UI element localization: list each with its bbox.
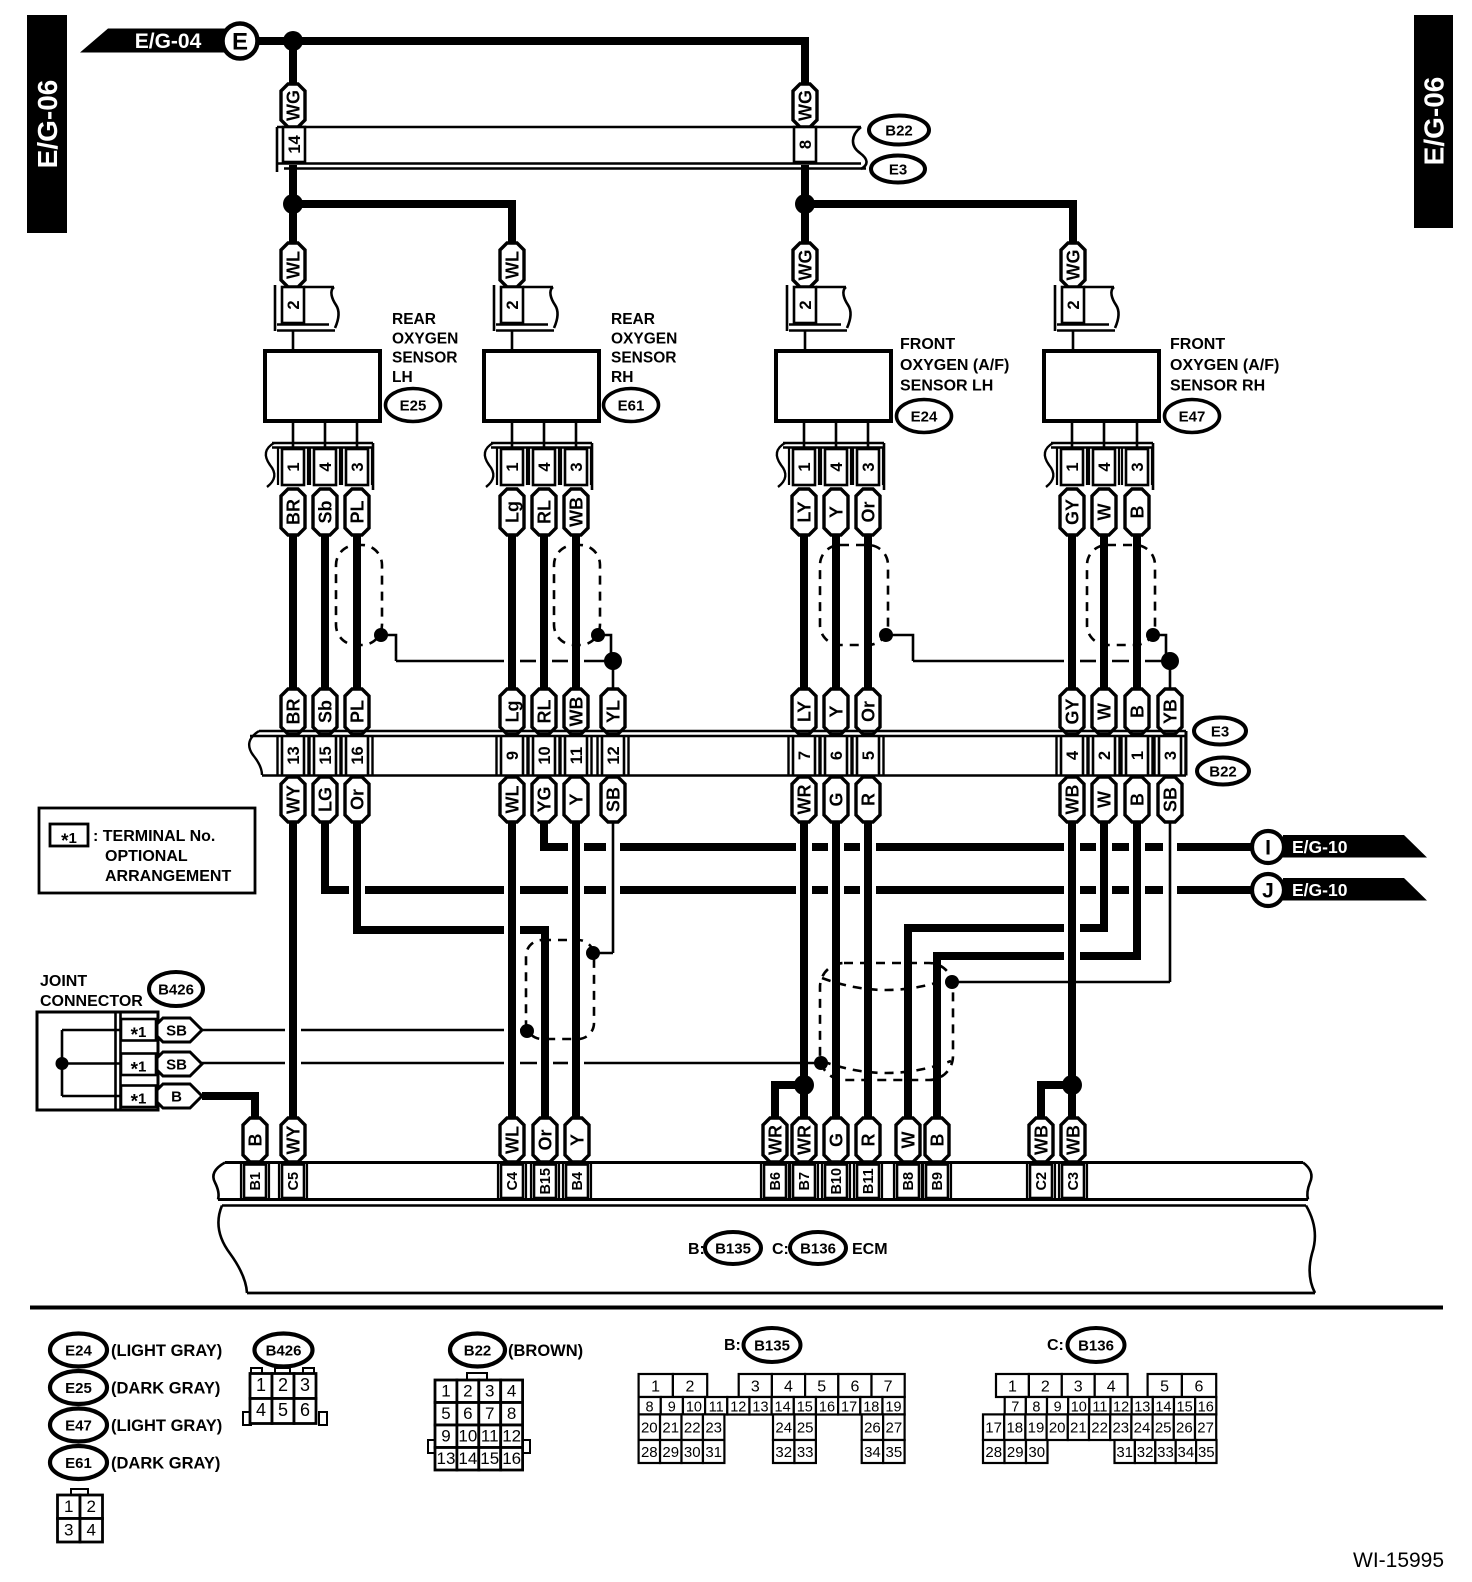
svg-text:16: 16: [819, 1400, 835, 1416]
svg-text:G: G: [826, 1133, 846, 1147]
svg-text:WI-15995: WI-15995: [1353, 1549, 1444, 1572]
svg-text:E/G-04: E/G-04: [135, 30, 202, 53]
svg-text:13: 13: [752, 1400, 768, 1416]
svg-text:2: 2: [285, 300, 303, 309]
svg-text:26: 26: [1176, 1420, 1193, 1437]
svg-text:B1: B1: [248, 1172, 264, 1191]
svg-text:WB: WB: [1062, 785, 1082, 815]
svg-text:1: 1: [64, 1497, 73, 1516]
svg-text:B15: B15: [538, 1168, 554, 1195]
svg-text:9: 9: [504, 751, 522, 760]
svg-text:LY: LY: [794, 501, 814, 522]
svg-text:10: 10: [1071, 1400, 1087, 1416]
svg-text:4: 4: [828, 462, 846, 472]
svg-text:4: 4: [1107, 1379, 1116, 1396]
svg-text:WL: WL: [502, 1126, 522, 1154]
svg-text:YG: YG: [534, 786, 554, 812]
svg-text:WB: WB: [566, 497, 586, 527]
svg-text:12: 12: [730, 1400, 746, 1416]
svg-text:6: 6: [850, 1379, 859, 1396]
svg-text:B9: B9: [930, 1172, 946, 1191]
svg-text:10: 10: [536, 746, 554, 764]
svg-text:19: 19: [885, 1400, 901, 1416]
svg-text:1: 1: [796, 462, 814, 471]
svg-text:15: 15: [317, 746, 335, 764]
svg-text:4: 4: [87, 1520, 96, 1539]
svg-text:B6: B6: [768, 1172, 784, 1191]
svg-text:OXYGEN (A/F): OXYGEN (A/F): [900, 357, 1009, 374]
svg-text:1: 1: [504, 462, 522, 471]
svg-text:30: 30: [1028, 1444, 1045, 1461]
svg-text:5: 5: [1160, 1379, 1169, 1396]
svg-text:W: W: [1094, 791, 1114, 808]
svg-text:YL: YL: [603, 700, 623, 723]
svg-text:31: 31: [1116, 1444, 1133, 1461]
svg-text:G: G: [826, 792, 846, 806]
svg-text:FRONT: FRONT: [1170, 336, 1225, 353]
svg-text:27: 27: [886, 1420, 903, 1437]
svg-text:B:: B:: [688, 1241, 705, 1258]
svg-text:3: 3: [860, 462, 878, 471]
svg-text:WL: WL: [502, 251, 522, 279]
svg-text:9: 9: [1054, 1400, 1062, 1416]
svg-text:B: B: [927, 1134, 947, 1147]
svg-text:: TERMINAL No.: : TERMINAL No.: [93, 828, 215, 845]
svg-text:32: 32: [775, 1444, 792, 1461]
svg-text:E47: E47: [1179, 409, 1206, 426]
svg-text:B135: B135: [754, 1338, 790, 1355]
svg-text:1: 1: [441, 1381, 450, 1400]
svg-text:14: 14: [775, 1400, 791, 1416]
svg-text:REAR: REAR: [611, 311, 655, 328]
svg-text:SB: SB: [166, 1023, 187, 1040]
svg-text:4: 4: [1096, 462, 1114, 472]
svg-text:23: 23: [705, 1420, 722, 1437]
svg-text:BR: BR: [283, 699, 303, 725]
svg-text:C:: C:: [1047, 1337, 1064, 1354]
svg-text:WL: WL: [502, 786, 522, 814]
svg-text:WG: WG: [795, 250, 815, 281]
svg-text:3: 3: [568, 462, 586, 471]
svg-text:E24: E24: [911, 409, 938, 426]
svg-text:E3: E3: [889, 162, 907, 179]
svg-text:27: 27: [1197, 1420, 1214, 1437]
svg-text:15: 15: [1177, 1400, 1193, 1416]
svg-text:10: 10: [458, 1426, 477, 1445]
svg-text:2: 2: [797, 300, 815, 309]
svg-text:B136: B136: [800, 1241, 836, 1258]
svg-text:WY: WY: [283, 1126, 303, 1155]
svg-text:W: W: [898, 1132, 918, 1149]
svg-text:GY: GY: [1062, 698, 1082, 724]
svg-text:B135: B135: [715, 1241, 751, 1258]
svg-text:3: 3: [1074, 1379, 1083, 1396]
svg-text:25: 25: [1155, 1420, 1172, 1437]
svg-text:SENSOR LH: SENSOR LH: [900, 378, 993, 395]
svg-text:8: 8: [507, 1404, 516, 1423]
svg-text:35: 35: [886, 1444, 903, 1461]
svg-text:E24: E24: [65, 1343, 92, 1360]
svg-text:E25: E25: [400, 398, 427, 415]
svg-text:1: 1: [1064, 462, 1082, 471]
svg-text:5: 5: [441, 1404, 450, 1423]
svg-text:31: 31: [705, 1444, 722, 1461]
svg-text:4: 4: [784, 1379, 793, 1396]
svg-text:SB: SB: [603, 787, 623, 812]
svg-text:WL: WL: [283, 251, 303, 279]
svg-text:3: 3: [64, 1520, 73, 1539]
svg-text:3: 3: [485, 1381, 494, 1400]
svg-text:2: 2: [504, 300, 522, 309]
svg-text:Y: Y: [826, 705, 846, 717]
svg-text:8: 8: [1032, 1400, 1040, 1416]
svg-text:FRONT: FRONT: [900, 336, 955, 353]
svg-text:E/G-10: E/G-10: [1292, 880, 1348, 900]
svg-text:REAR: REAR: [392, 311, 436, 328]
svg-text:C:: C:: [772, 1241, 789, 1258]
svg-text:4: 4: [317, 462, 335, 472]
svg-text:B4: B4: [570, 1172, 586, 1191]
svg-text:B: B: [1127, 705, 1147, 718]
svg-text:8: 8: [646, 1400, 654, 1416]
svg-text:B: B: [171, 1089, 182, 1106]
svg-text:6: 6: [828, 751, 846, 760]
svg-text:E3: E3: [1211, 724, 1229, 741]
svg-text:7: 7: [1011, 1400, 1019, 1416]
svg-text:LY: LY: [794, 701, 814, 722]
svg-text:18: 18: [1006, 1420, 1023, 1437]
svg-text:28: 28: [985, 1444, 1002, 1461]
svg-text:B: B: [245, 1134, 265, 1147]
svg-text:2: 2: [463, 1381, 472, 1400]
svg-text:35: 35: [1198, 1444, 1215, 1461]
svg-text:2: 2: [1041, 1379, 1050, 1396]
svg-text:B22: B22: [464, 1343, 492, 1360]
svg-text:OPTIONAL: OPTIONAL: [105, 848, 188, 865]
svg-text:(LIGHT GRAY): (LIGHT GRAY): [111, 1417, 222, 1435]
svg-text:JOINT: JOINT: [40, 973, 87, 990]
svg-text:E47: E47: [65, 1418, 92, 1435]
svg-text:13: 13: [436, 1449, 455, 1468]
svg-text:3: 3: [349, 462, 367, 471]
svg-text:14: 14: [286, 135, 304, 154]
svg-text:C4: C4: [505, 1172, 521, 1191]
svg-text:7: 7: [485, 1404, 494, 1423]
svg-text:Or: Or: [858, 701, 878, 722]
svg-text:R: R: [858, 793, 878, 806]
svg-text:SENSOR RH: SENSOR RH: [1170, 378, 1265, 395]
svg-text:2: 2: [1065, 300, 1083, 309]
svg-text:32: 32: [1137, 1444, 1154, 1461]
svg-text:12: 12: [502, 1426, 521, 1445]
svg-text:WG: WG: [283, 90, 303, 121]
svg-text:RL: RL: [534, 700, 554, 724]
svg-text:B11: B11: [861, 1168, 877, 1194]
svg-text:2: 2: [1096, 751, 1114, 760]
svg-text:2: 2: [278, 1375, 288, 1395]
svg-text:WR: WR: [794, 1125, 814, 1155]
svg-text:C3: C3: [1066, 1172, 1082, 1191]
svg-text:Sb: Sb: [315, 500, 335, 523]
svg-text:20: 20: [1049, 1420, 1066, 1437]
svg-text:1: 1: [651, 1379, 660, 1396]
svg-text:11: 11: [481, 1426, 499, 1445]
svg-text:15: 15: [480, 1449, 499, 1468]
svg-text:17: 17: [985, 1420, 1002, 1437]
svg-text:E25: E25: [65, 1380, 92, 1397]
svg-text:9: 9: [668, 1400, 676, 1416]
svg-text:E: E: [232, 29, 248, 56]
svg-text:30: 30: [684, 1444, 701, 1461]
svg-text:LG: LG: [315, 787, 335, 812]
svg-text:Or: Or: [535, 1129, 555, 1150]
svg-text:3: 3: [1162, 751, 1180, 760]
svg-text:B22: B22: [1209, 764, 1237, 781]
svg-text:4: 4: [507, 1381, 516, 1400]
svg-text:E/G-06: E/G-06: [32, 80, 63, 169]
svg-text:Or: Or: [347, 789, 367, 810]
svg-text:16: 16: [349, 746, 367, 764]
svg-text:OXYGEN (A/F): OXYGEN (A/F): [1170, 357, 1279, 374]
svg-text:LH: LH: [392, 369, 413, 386]
svg-text:Sb: Sb: [315, 700, 335, 723]
svg-text:CONNECTOR: CONNECTOR: [40, 993, 143, 1010]
svg-text:33: 33: [1157, 1444, 1174, 1461]
svg-text:Lg: Lg: [502, 501, 522, 523]
svg-text:B136: B136: [1078, 1338, 1114, 1355]
svg-text:(DARK GRAY): (DARK GRAY): [111, 1455, 220, 1473]
svg-text:11: 11: [1092, 1400, 1107, 1416]
svg-text:3: 3: [300, 1375, 310, 1395]
svg-text:23: 23: [1112, 1420, 1129, 1437]
svg-text:Y: Y: [567, 1134, 587, 1146]
svg-text:7: 7: [796, 751, 814, 760]
svg-text:Y: Y: [826, 506, 846, 518]
svg-text:B:: B:: [724, 1337, 741, 1354]
svg-text:29: 29: [662, 1444, 679, 1461]
svg-text:6: 6: [300, 1400, 310, 1420]
svg-text:OXYGEN: OXYGEN: [392, 330, 458, 347]
svg-text:WB: WB: [566, 697, 586, 727]
svg-text:4: 4: [1064, 750, 1082, 760]
svg-text:J: J: [1262, 880, 1274, 903]
svg-text:14: 14: [1155, 1400, 1171, 1416]
svg-text:WR: WR: [765, 1125, 785, 1155]
svg-text:12: 12: [605, 746, 623, 764]
svg-text:B10: B10: [829, 1168, 845, 1195]
svg-text:Y: Y: [566, 793, 586, 805]
svg-text:SENSOR: SENSOR: [611, 350, 676, 367]
svg-text:29: 29: [1007, 1444, 1024, 1461]
svg-text:WG: WG: [1063, 250, 1083, 281]
svg-text:BR: BR: [283, 499, 303, 525]
svg-text:9: 9: [441, 1426, 450, 1445]
svg-text:21: 21: [662, 1420, 679, 1437]
svg-text:GY: GY: [1062, 499, 1082, 525]
svg-text:5: 5: [860, 751, 878, 760]
svg-text:6: 6: [463, 1404, 472, 1423]
svg-text:16: 16: [1198, 1400, 1214, 1416]
svg-text:1: 1: [285, 462, 303, 471]
svg-text:Lg: Lg: [502, 701, 522, 723]
svg-text:3: 3: [1129, 462, 1147, 471]
svg-text:33: 33: [797, 1444, 814, 1461]
svg-text:C2: C2: [1034, 1172, 1050, 1191]
svg-text:B426: B426: [158, 982, 194, 999]
svg-text:Or: Or: [858, 501, 878, 522]
svg-text:22: 22: [684, 1420, 701, 1437]
svg-text:WY: WY: [283, 785, 303, 814]
svg-text:(DARK GRAY): (DARK GRAY): [111, 1380, 220, 1398]
svg-text:13: 13: [1134, 1400, 1150, 1416]
svg-text:R: R: [858, 1134, 878, 1147]
svg-text:PL: PL: [347, 700, 367, 723]
svg-text:5: 5: [817, 1379, 826, 1396]
svg-text:SB: SB: [1160, 787, 1180, 812]
svg-text:WR: WR: [794, 785, 814, 815]
svg-text:4: 4: [536, 462, 554, 472]
svg-text:19: 19: [1028, 1420, 1045, 1437]
svg-text:7: 7: [884, 1379, 893, 1396]
svg-text:1: 1: [1008, 1379, 1017, 1396]
svg-text:11: 11: [709, 1400, 724, 1416]
svg-text:RL: RL: [534, 500, 554, 524]
svg-text:10: 10: [686, 1400, 702, 1416]
svg-text:26: 26: [864, 1420, 881, 1437]
svg-text:B8: B8: [901, 1172, 917, 1191]
svg-text:YB: YB: [1160, 699, 1180, 724]
svg-text:5: 5: [278, 1400, 288, 1420]
svg-text:WB: WB: [1063, 1125, 1083, 1155]
svg-text:28: 28: [641, 1444, 658, 1461]
svg-text:2: 2: [87, 1497, 96, 1516]
svg-text:SENSOR: SENSOR: [392, 350, 457, 367]
svg-text:E61: E61: [618, 398, 645, 415]
svg-text:22: 22: [1091, 1420, 1108, 1437]
svg-text:PL: PL: [347, 500, 367, 523]
svg-text:B7: B7: [797, 1172, 813, 1191]
svg-text:25: 25: [797, 1420, 814, 1437]
svg-text:15: 15: [797, 1400, 813, 1416]
svg-text:E61: E61: [65, 1455, 92, 1472]
svg-text:(LIGHT GRAY): (LIGHT GRAY): [111, 1342, 222, 1360]
svg-text:W: W: [1094, 703, 1114, 720]
svg-text:C5: C5: [286, 1172, 302, 1191]
svg-text:I: I: [1265, 837, 1271, 860]
svg-text:21: 21: [1070, 1420, 1087, 1437]
svg-text:17: 17: [841, 1400, 857, 1416]
svg-text:13: 13: [285, 746, 303, 764]
svg-text:WB: WB: [1031, 1125, 1051, 1155]
svg-text:14: 14: [458, 1449, 477, 1468]
svg-text:E/G-10: E/G-10: [1292, 837, 1348, 857]
svg-text:ECM: ECM: [852, 1241, 888, 1258]
svg-text:B426: B426: [266, 1343, 302, 1360]
svg-text:(BROWN): (BROWN): [508, 1342, 583, 1360]
svg-text:24: 24: [775, 1420, 792, 1437]
svg-text:24: 24: [1134, 1420, 1151, 1437]
svg-text:8: 8: [797, 140, 815, 149]
svg-text:11: 11: [568, 747, 586, 764]
svg-text:16: 16: [502, 1449, 521, 1468]
svg-text:4: 4: [256, 1400, 266, 1420]
svg-text:12: 12: [1113, 1400, 1129, 1416]
svg-text:W: W: [1094, 504, 1114, 521]
svg-text:1: 1: [256, 1375, 266, 1395]
svg-text:34: 34: [864, 1444, 881, 1461]
svg-text:ARRANGEMENT: ARRANGEMENT: [105, 868, 231, 885]
svg-text:2: 2: [685, 1379, 694, 1396]
svg-text:6: 6: [1194, 1379, 1203, 1396]
svg-text:34: 34: [1178, 1444, 1195, 1461]
svg-text:SB: SB: [166, 1057, 187, 1074]
svg-text:WG: WG: [795, 90, 815, 121]
svg-text:OXYGEN: OXYGEN: [611, 330, 677, 347]
svg-text:3: 3: [751, 1379, 760, 1396]
svg-text:B: B: [1127, 506, 1147, 519]
svg-text:B: B: [1127, 793, 1147, 806]
svg-text:RH: RH: [611, 369, 633, 386]
svg-text:1: 1: [1129, 751, 1147, 760]
svg-text:18: 18: [863, 1400, 879, 1416]
svg-text:20: 20: [641, 1420, 658, 1437]
svg-text:B22: B22: [885, 123, 913, 140]
svg-text:E/G-06: E/G-06: [1419, 77, 1450, 166]
